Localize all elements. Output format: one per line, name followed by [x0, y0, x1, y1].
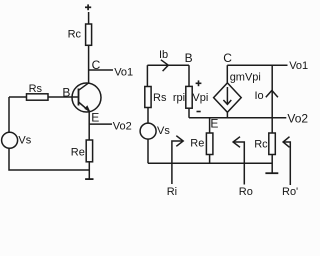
label + of Vpi — [196, 80, 202, 86]
wire Rs to Vs — [147, 108, 149, 124]
svg-text:Rc: Rc — [68, 28, 82, 40]
wire B to rpi — [188, 65, 190, 86]
wire Re to bottom rail — [209, 155, 211, 164]
resistor Rc (right circuit) — [254, 133, 275, 155]
wire left branch (Rs top) — [146, 65, 148, 86]
resistor Rs (right circuit) — [145, 87, 167, 108]
wire C to source top — [226, 65, 228, 83]
svg-text:Re: Re — [71, 146, 85, 158]
svg-text:Rs: Rs — [29, 83, 43, 95]
source Vs (right circuit) — [140, 123, 170, 139]
svg-text:E: E — [210, 117, 218, 131]
dependent source gmVpi — [214, 72, 261, 113]
svg-text:Re: Re — [190, 137, 204, 149]
wire E to Vo2 — [89, 123, 112, 125]
svg-text:Vo2: Vo2 — [287, 112, 308, 126]
svg-text:Ro: Ro — [239, 186, 253, 198]
svg-text:Vo1: Vo1 — [289, 60, 308, 72]
wire top-left rail (B node) — [147, 64, 189, 66]
svg-text:gmVpi: gmVpi — [230, 72, 261, 84]
label - of Vpi — [197, 111, 201, 113]
svg-text:E: E — [91, 111, 99, 125]
arrow Ro — [233, 137, 244, 185]
wire top-right rail (C node) — [227, 64, 287, 66]
arrow Ro' — [283, 137, 290, 185]
svg-text:Vo1: Vo1 — [114, 66, 133, 78]
wire rpi to E rail — [188, 108, 190, 118]
wire Vs to bottom rail — [147, 139, 149, 163]
wire E rail — [189, 117, 286, 119]
svg-text:C: C — [223, 51, 232, 65]
svg-text:Io: Io — [255, 90, 264, 102]
transistor Q1 — [72, 83, 101, 112]
wire right branch — [271, 65, 273, 133]
wire supply to Rc — [88, 12, 90, 24]
resistor Rs (left circuit) — [27, 83, 49, 100]
arrow Ib — [161, 60, 168, 71]
supply + terminal — [85, 4, 91, 10]
wire base left segment — [9, 96, 27, 98]
wire source to E rail — [226, 112, 228, 118]
svg-text:Vo2: Vo2 — [113, 120, 132, 132]
svg-text:Ri: Ri — [167, 186, 177, 198]
arrow Ri — [172, 136, 183, 184]
wire E to Re — [209, 118, 211, 133]
svg-text:B: B — [185, 51, 193, 65]
wire Rc to collector — [88, 45, 90, 83]
wire emitter down — [88, 111, 90, 140]
arrow Io — [266, 90, 278, 97]
svg-text:Rc: Rc — [254, 139, 268, 151]
svg-text:Vpi: Vpi — [192, 92, 208, 104]
svg-text:Vs: Vs — [18, 135, 31, 147]
svg-text:Ro': Ro' — [282, 186, 298, 198]
svg-text:Vs: Vs — [157, 125, 170, 137]
resistor Rc (left circuit) — [68, 24, 92, 45]
wire left branch down — [8, 97, 10, 132]
svg-text:Rs: Rs — [153, 92, 167, 104]
resistor rpi — [173, 86, 192, 108]
svg-text:rpi: rpi — [173, 92, 185, 104]
ground (right circuit) — [265, 172, 278, 174]
ground (left circuit) — [85, 178, 93, 180]
resistor Re (left circuit) — [71, 140, 93, 162]
wire Re to ground — [88, 162, 90, 179]
wire base right segment — [48, 96, 78, 98]
wire bottom rail — [148, 162, 272, 164]
wire Rc to ground — [271, 155, 273, 174]
wire Vs to bottom rail — [9, 148, 89, 170]
source Vs (left circuit) — [2, 132, 32, 148]
svg-text:Ib: Ib — [159, 49, 168, 61]
wire C to Vo1 — [89, 69, 113, 71]
resistor Re (right circuit) — [190, 133, 213, 155]
